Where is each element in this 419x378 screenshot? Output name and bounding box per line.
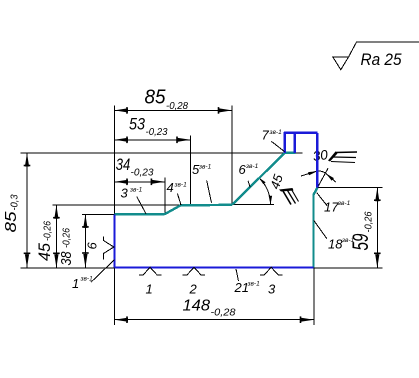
- svg-text:-0,26: -0,26: [363, 211, 375, 232]
- part outline: notch right vertical (blue): [294, 132, 296, 153]
- svg-text:7: 7: [262, 128, 270, 143]
- svg-text:45: 45: [35, 242, 54, 261]
- svg-text:-0,3: -0,3: [10, 194, 21, 210]
- part outline: middle step surface (teal): [181, 204, 233, 207]
- angle dimension 45 deg: [232, 172, 299, 205]
- wire: bottom-left extension y=268: [21, 267, 115, 269]
- 30 deg hatch mark: [328, 152, 338, 162]
- wire: vertical extension x=114.5 above part: [114, 106, 116, 215]
- svg-text:зв-1: зв-1: [337, 200, 351, 207]
- part outline: left top surface (teal): [115, 213, 165, 215]
- svg-text:-0,23: -0,23: [131, 167, 154, 179]
- dimension 38-0,26 / 6 vertical: [58, 214, 100, 267]
- roughness checkmark 3 on bottom edge: [260, 267, 283, 296]
- svg-text:4: 4: [167, 180, 174, 195]
- svg-text:1: 1: [72, 276, 79, 291]
- leader label 1 (bottom left): [72, 260, 114, 291]
- part outline: right chamfer 30 deg (teal): [314, 188, 318, 195]
- svg-text:85: 85: [3, 211, 20, 232]
- leader label 3: [121, 186, 147, 214]
- svg-text:34: 34: [116, 156, 131, 174]
- dimension 59-0,26 vertical right: [348, 188, 381, 268]
- part outline: ramp (teal): [164, 205, 180, 214]
- svg-text:зв-1: зв-1: [247, 281, 261, 288]
- surface finish general symbol Ra 25: [333, 42, 419, 70]
- svg-text:85: 85: [145, 87, 167, 109]
- svg-text:зв-1: зв-1: [174, 182, 188, 189]
- leader label 6: [239, 162, 259, 187]
- svg-text:18: 18: [328, 237, 343, 252]
- svg-text:38: 38: [58, 251, 75, 266]
- svg-text:53: 53: [129, 115, 145, 134]
- svg-text:3: 3: [268, 282, 276, 297]
- wire: extension line y=214.4 (38 top ref): [82, 213, 115, 215]
- leader label 7: [262, 128, 285, 152]
- part outline: tab top edge (blue): [284, 132, 318, 134]
- wire: vertical extension x=114.5 below part: [114, 268, 116, 326]
- dimension 53-0,23 horizontal: [115, 115, 191, 144]
- part outline: notch bottom (teal): [284, 152, 296, 154]
- part outline: right upper vertical (blue): [316, 133, 318, 188]
- svg-text:-0,28: -0,28: [166, 100, 188, 112]
- svg-text:30: 30: [312, 147, 329, 164]
- dimension 85-0,3 vertical left: [3, 153, 30, 268]
- wire: right extension y=187.7 (59 top ref): [318, 187, 383, 189]
- svg-text:-0,26: -0,26: [62, 228, 73, 248]
- leader label 5: [192, 162, 212, 203]
- dimension 148-0,28 horizontal bottom: [115, 298, 315, 324]
- part outline: 45 deg chamfer surface (teal): [232, 153, 285, 205]
- part outline: notch left vertical (blue): [284, 132, 286, 153]
- wire: vertical extension x=314 below part: [313, 268, 315, 325]
- wire: vertical extension x=232 (85 ref): [231, 106, 233, 205]
- angle dimension 30 deg: [301, 147, 357, 188]
- wire: extension line y=205.2 (45 top ref): [52, 204, 181, 206]
- svg-text:148: 148: [183, 298, 211, 315]
- svg-text:1: 1: [146, 282, 153, 297]
- svg-text:2: 2: [189, 282, 198, 297]
- dimension 85-0,28 horizontal: [115, 87, 233, 114]
- svg-text:зв-1: зв-1: [245, 163, 259, 170]
- part outline: bottom edge (blue): [115, 266, 314, 268]
- svg-text:3: 3: [121, 186, 129, 201]
- dimension 34-0,23 horizontal: [115, 156, 165, 185]
- svg-text:17: 17: [324, 200, 339, 215]
- svg-text:зв-1: зв-1: [341, 237, 355, 244]
- part outline: left vertical edge (blue): [113, 214, 115, 267]
- svg-text:зв-1: зв-1: [80, 276, 94, 283]
- wire: vertical extension x=190.5 (53 ref): [190, 136, 192, 205]
- svg-text:-0,28: -0,28: [211, 307, 236, 319]
- part outline: right lower vertical (teal): [312, 195, 314, 268]
- wire: vertical extension x=165 (34 ref): [164, 177, 166, 213]
- svg-text:зв-1: зв-1: [198, 164, 212, 171]
- roughness checkmark 2 on bottom edge: [183, 267, 206, 296]
- svg-text:зв-1: зв-1: [269, 129, 283, 136]
- svg-text:зв-1: зв-1: [129, 187, 143, 194]
- leader label 18: [314, 220, 355, 251]
- svg-text:Ra 25: Ra 25: [361, 51, 403, 69]
- svg-text:-0,26: -0,26: [43, 221, 54, 241]
- roughness checkmark 1 on bottom edge: [139, 267, 162, 296]
- svg-text:-0,23: -0,23: [146, 126, 168, 138]
- wire: bottom-right extension y=268: [314, 267, 383, 269]
- dimension 45-0,26 vertical: [35, 205, 60, 268]
- leader label 17: [317, 193, 351, 215]
- svg-text:6: 6: [85, 242, 100, 250]
- leader label 4: [167, 180, 188, 205]
- 45 deg hatch mark: [279, 188, 294, 192]
- roughness checkmark on left edge: [104, 237, 114, 260]
- leader label 21: [234, 269, 261, 295]
- wire: extension line y=153 (top ref of 85-0,3): [21, 152, 303, 154]
